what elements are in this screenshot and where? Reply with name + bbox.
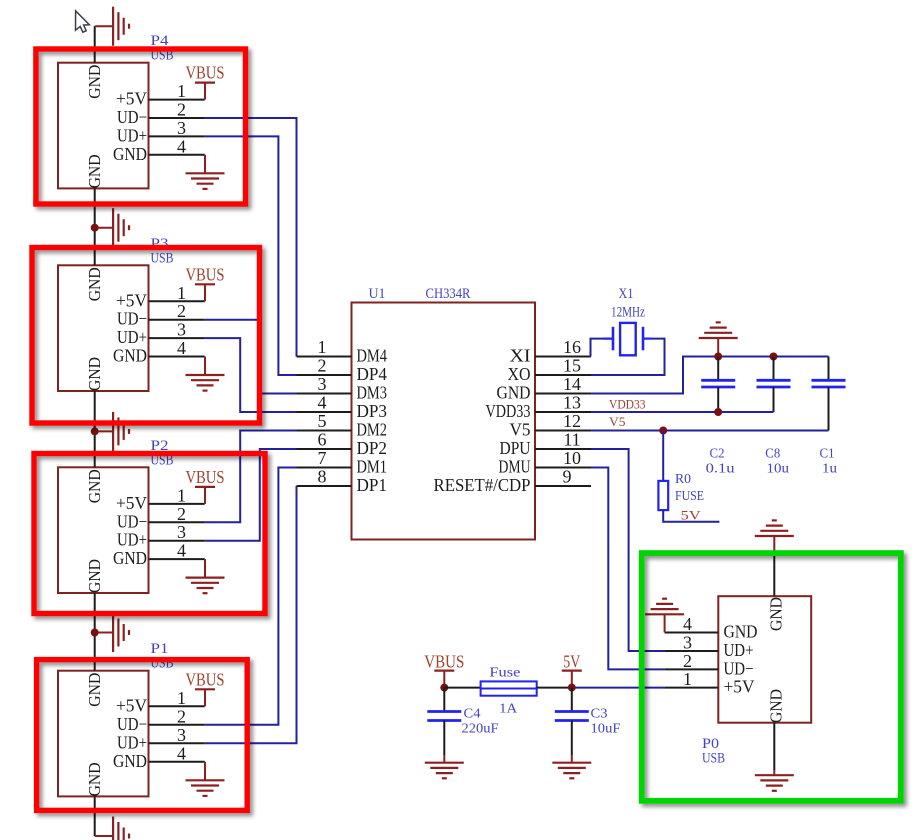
ground below P0 xyxy=(755,775,794,791)
svg-text:XI: XI xyxy=(510,346,531,366)
svg-text:GND: GND xyxy=(85,469,104,503)
ground (rotated) on GND chain #4 xyxy=(95,613,129,652)
svg-text:C8: C8 xyxy=(765,447,780,462)
svg-text:X1: X1 xyxy=(619,286,634,302)
svg-text:15: 15 xyxy=(563,356,581,376)
annotation green box around P0 xyxy=(642,553,901,801)
svg-text:C1: C1 xyxy=(820,447,835,462)
U1 left pins 1-8 xyxy=(297,337,388,495)
svg-text:5V: 5V xyxy=(681,508,702,523)
svg-text:C3: C3 xyxy=(591,707,608,722)
P2 pin numbers xyxy=(177,485,186,560)
ground at P3 pin 4 xyxy=(186,357,225,391)
svg-text:USB: USB xyxy=(702,751,725,767)
mouse cursor xyxy=(76,11,90,32)
svg-text:+5V: +5V xyxy=(116,695,147,715)
ground below C3 xyxy=(552,763,591,779)
svg-text:USB: USB xyxy=(151,250,174,266)
wire net VDD33 pin13 xyxy=(591,411,774,413)
svg-text:1A: 1A xyxy=(499,702,518,717)
power symbol VBUS at P2 pin 1 xyxy=(186,467,225,504)
power symbol VBUS at P4 pin 1 xyxy=(186,63,225,100)
annotation red box around P2 xyxy=(34,454,265,614)
P2 pin names xyxy=(113,493,147,568)
connector P4 (USB) body xyxy=(58,63,149,189)
svg-text:4: 4 xyxy=(318,393,327,413)
svg-text:10uF: 10uF xyxy=(591,722,621,737)
P1 pin names xyxy=(113,695,147,771)
connector P2 (USB) body xyxy=(58,467,149,593)
svg-text:C4: C4 xyxy=(464,707,481,722)
P3 pin names xyxy=(113,290,147,365)
svg-text:VBUS: VBUS xyxy=(186,669,225,689)
wire GND pin14 to cap rail xyxy=(591,357,829,394)
connector P0 (USB) body xyxy=(718,596,811,723)
svg-text:GND: GND xyxy=(724,622,758,642)
svg-text:FUSE: FUSE xyxy=(675,489,704,504)
svg-text:GND: GND xyxy=(85,673,104,707)
P0 bottom GND pin wire xyxy=(773,723,775,776)
svg-text:DP1: DP1 xyxy=(357,475,388,495)
P0 top GND pin wire xyxy=(773,536,775,596)
svg-text:3: 3 xyxy=(683,633,692,653)
svg-text:GND: GND xyxy=(113,751,147,771)
svg-text:2: 2 xyxy=(683,651,692,671)
fuse F 1A xyxy=(481,666,537,717)
P4 pin numbers xyxy=(177,81,186,156)
P1 pin numbers xyxy=(177,688,186,764)
wire net DP2 xyxy=(205,449,297,541)
svg-text:DP2: DP2 xyxy=(357,438,388,458)
wire net DM1 xyxy=(205,468,297,725)
ground (rotated) on GND chain #3 xyxy=(95,412,129,451)
svg-text:9: 9 xyxy=(563,467,572,487)
svg-text:10u: 10u xyxy=(767,462,790,477)
svg-text:CH334R: CH334R xyxy=(426,286,471,302)
svg-text:12: 12 xyxy=(563,411,581,431)
svg-text:+5V: +5V xyxy=(724,677,755,697)
capacitor C8 10u xyxy=(757,357,791,477)
net label VDD33 xyxy=(609,398,646,412)
svg-text:10: 10 xyxy=(563,448,581,468)
svg-text:RESET#/CDP: RESET#/CDP xyxy=(434,475,531,495)
svg-text:GND: GND xyxy=(85,154,104,188)
svg-text:4: 4 xyxy=(177,338,186,358)
svg-text:16: 16 xyxy=(563,337,581,357)
svg-text:4: 4 xyxy=(177,743,186,763)
svg-text:DM3: DM3 xyxy=(357,383,388,403)
svg-text:2: 2 xyxy=(318,356,327,376)
svg-text:3: 3 xyxy=(177,725,186,745)
IC U1 CH334R body xyxy=(352,303,536,540)
svg-text:3: 3 xyxy=(177,118,186,138)
svg-text:GND: GND xyxy=(767,689,786,723)
svg-text:2: 2 xyxy=(177,504,186,524)
wire net DM4 xyxy=(205,118,297,357)
wire GND chain vertical xyxy=(94,26,96,836)
svg-text:UD−: UD− xyxy=(724,658,754,678)
svg-text:DM2: DM2 xyxy=(357,420,388,440)
P4 pin names xyxy=(113,89,147,164)
svg-text:VBUS: VBUS xyxy=(424,652,464,672)
svg-text:220uF: 220uF xyxy=(462,722,499,737)
ground at P0 pin 4 xyxy=(645,599,684,633)
svg-text:7: 7 xyxy=(318,448,327,468)
svg-text:R0: R0 xyxy=(675,472,691,487)
svg-text:14: 14 xyxy=(563,374,581,394)
svg-text:V5: V5 xyxy=(609,415,626,429)
svg-text:+5V: +5V xyxy=(116,89,147,109)
junction cap rail at C2 xyxy=(714,353,722,361)
svg-text:1: 1 xyxy=(177,688,186,708)
connector P3 (USB) body xyxy=(58,265,149,391)
wire net DPU (pin11 to P0 UD+) xyxy=(591,449,665,651)
svg-text:UD+: UD+ xyxy=(724,640,754,660)
svg-text:3: 3 xyxy=(177,522,186,542)
capacitor C3 10uF xyxy=(555,688,621,763)
svg-text:UD+: UD+ xyxy=(117,732,147,752)
wire net DP4 xyxy=(205,136,297,375)
svg-text:GND: GND xyxy=(767,597,786,631)
P0 pin stubs and names xyxy=(665,614,758,697)
svg-text:DP3: DP3 xyxy=(357,401,388,421)
U1 value CH334R xyxy=(426,286,471,302)
svg-text:UD−: UD− xyxy=(117,511,147,531)
svg-text:6: 6 xyxy=(318,430,327,450)
svg-text:DM1: DM1 xyxy=(357,457,388,477)
svg-text:VDD33: VDD33 xyxy=(609,398,646,412)
svg-text:UD−: UD− xyxy=(117,714,147,734)
junction VDD33 at C2 xyxy=(714,408,722,416)
svg-text:1u: 1u xyxy=(822,462,837,477)
capacitor C2 0.1u xyxy=(701,357,735,477)
P1 pin stubs 1-4 xyxy=(149,706,205,762)
annotation red box around P4 xyxy=(36,49,246,204)
svg-text:+5V: +5V xyxy=(116,493,147,513)
svg-text:UD−: UD− xyxy=(117,107,147,127)
svg-text:1: 1 xyxy=(318,337,327,357)
P4 designator labels xyxy=(151,33,174,64)
svg-text:2: 2 xyxy=(177,100,186,120)
power symbol VBUS at P3 pin 1 xyxy=(186,264,225,301)
svg-text:2: 2 xyxy=(177,706,186,726)
svg-text:XO: XO xyxy=(508,364,531,384)
svg-text:GND: GND xyxy=(85,559,104,593)
junction on GND chain xyxy=(91,224,99,232)
svg-text:U1: U1 xyxy=(369,286,386,302)
svg-text:DPU: DPU xyxy=(500,438,531,458)
svg-text:1: 1 xyxy=(177,485,186,505)
P0 designator labels xyxy=(702,736,725,767)
capacitor C4 220uF xyxy=(427,688,498,763)
svg-text:13: 13 xyxy=(563,393,581,413)
ground at P2 pin 4 xyxy=(186,559,225,593)
svg-text:4: 4 xyxy=(177,136,186,156)
wire XI to crystal xyxy=(591,339,612,357)
ground above P0 xyxy=(755,520,794,536)
svg-text:DM4: DM4 xyxy=(357,346,388,366)
wire net DM2 xyxy=(205,431,297,523)
svg-text:0.1u: 0.1u xyxy=(706,462,735,477)
wire crystal to XO xyxy=(591,339,665,375)
svg-text:GND: GND xyxy=(85,65,104,99)
svg-text:5V: 5V xyxy=(563,652,580,672)
P2 pin stubs 1-4 xyxy=(149,504,205,559)
svg-text:+5V: +5V xyxy=(116,290,147,310)
capacitor C1 1u xyxy=(812,357,846,477)
svg-text:V5: V5 xyxy=(510,420,531,440)
resistor R0 FUSE xyxy=(658,431,719,523)
wire net DP3 xyxy=(205,338,297,412)
svg-text:4: 4 xyxy=(683,614,692,634)
svg-text:3: 3 xyxy=(177,320,186,340)
svg-text:GND: GND xyxy=(113,548,147,568)
svg-text:1: 1 xyxy=(177,283,186,303)
net label V5 xyxy=(609,415,626,429)
wire net DP1 xyxy=(205,486,297,743)
svg-text:UD−: UD− xyxy=(117,309,147,329)
svg-text:1: 1 xyxy=(683,669,692,689)
wire 5V to P0 pin1 xyxy=(575,687,665,689)
svg-text:12MHz: 12MHz xyxy=(611,305,645,321)
svg-text:2: 2 xyxy=(177,301,186,321)
junction VBUS rail xyxy=(440,684,448,692)
svg-text:3: 3 xyxy=(318,374,327,394)
U1 right pins 16-9 xyxy=(434,337,592,495)
annotation red box around P3 xyxy=(32,248,260,424)
svg-text:UD+: UD+ xyxy=(117,530,147,550)
svg-text:GND: GND xyxy=(113,144,147,164)
U1 designator xyxy=(369,286,386,302)
svg-text:GND: GND xyxy=(85,357,104,391)
svg-text:VDD33: VDD33 xyxy=(486,401,531,421)
ground below C4 xyxy=(425,763,464,779)
svg-text:4: 4 xyxy=(177,541,186,561)
svg-text:GND: GND xyxy=(113,346,147,366)
junction V5 at R0 xyxy=(659,427,667,435)
svg-text:5: 5 xyxy=(318,411,327,431)
wire net V5 pin12 xyxy=(591,430,829,432)
junction 5V rail xyxy=(568,684,576,692)
annotation red box around P1 xyxy=(37,660,248,811)
ground (rotated) on GND chain #1 xyxy=(95,7,129,46)
power symbol 5V (bottom) xyxy=(562,652,582,688)
svg-text:GND: GND xyxy=(497,383,531,403)
svg-text:GND: GND xyxy=(85,267,104,301)
connector P1 (USB) body xyxy=(58,671,149,797)
power symbol VBUS at P1 pin 1 xyxy=(186,669,225,706)
P2 designator labels xyxy=(151,438,174,469)
svg-text:VBUS: VBUS xyxy=(186,264,225,284)
P3 pin stubs 1-4 xyxy=(149,301,205,356)
svg-text:8: 8 xyxy=(318,467,327,487)
junction cap rail at C8 xyxy=(770,353,778,361)
svg-text:DMU: DMU xyxy=(499,457,531,477)
svg-text:DP4: DP4 xyxy=(357,364,388,384)
svg-text:C2: C2 xyxy=(710,447,725,462)
svg-text:VBUS: VBUS xyxy=(186,63,225,83)
svg-text:VBUS: VBUS xyxy=(186,467,225,487)
svg-text:GND: GND xyxy=(85,762,104,796)
ground at P1 pin 4 xyxy=(186,762,225,796)
wire net DMU (pin10 to P0 UD-) xyxy=(591,468,665,670)
wire VBUS to fuse xyxy=(444,687,480,689)
svg-text:1: 1 xyxy=(177,81,186,101)
wire fuse to 5V xyxy=(537,687,575,689)
P3 pin numbers xyxy=(177,283,186,358)
power symbol VBUS (bottom) xyxy=(424,652,464,688)
wire net DM3 xyxy=(205,320,297,394)
ground (rotated) on GND chain #2 xyxy=(95,208,129,247)
svg-text:UD+: UD+ xyxy=(117,327,147,347)
P3 designator labels xyxy=(151,236,174,266)
junction on GND chain xyxy=(91,629,99,637)
P1 designator labels xyxy=(151,641,174,672)
svg-text:Fuse: Fuse xyxy=(489,666,520,681)
junction on GND chain xyxy=(91,427,99,435)
ground above cap rail xyxy=(699,322,738,356)
crystal X1 12MHz xyxy=(604,286,653,355)
svg-text:11: 11 xyxy=(563,430,580,450)
ground (rotated) on GND chain #5 xyxy=(95,817,129,840)
svg-text:UD+: UD+ xyxy=(117,125,147,145)
ground at P4 pin 4 xyxy=(186,155,225,189)
P4 pin stubs 1-4 xyxy=(149,100,205,155)
